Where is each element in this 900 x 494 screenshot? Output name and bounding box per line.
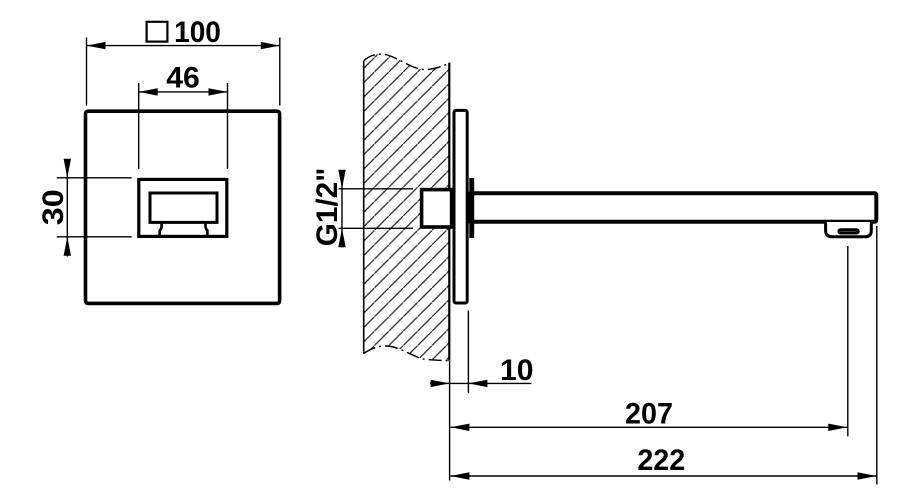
svg-text:207: 207 (625, 398, 673, 431)
svg-text:G1/2": G1/2" (311, 168, 344, 247)
svg-text:100: 100 (174, 16, 221, 49)
svg-text:222: 222 (637, 444, 685, 477)
svg-text:30: 30 (37, 189, 70, 225)
svg-text:10: 10 (500, 354, 534, 387)
svg-text:46: 46 (166, 62, 200, 95)
